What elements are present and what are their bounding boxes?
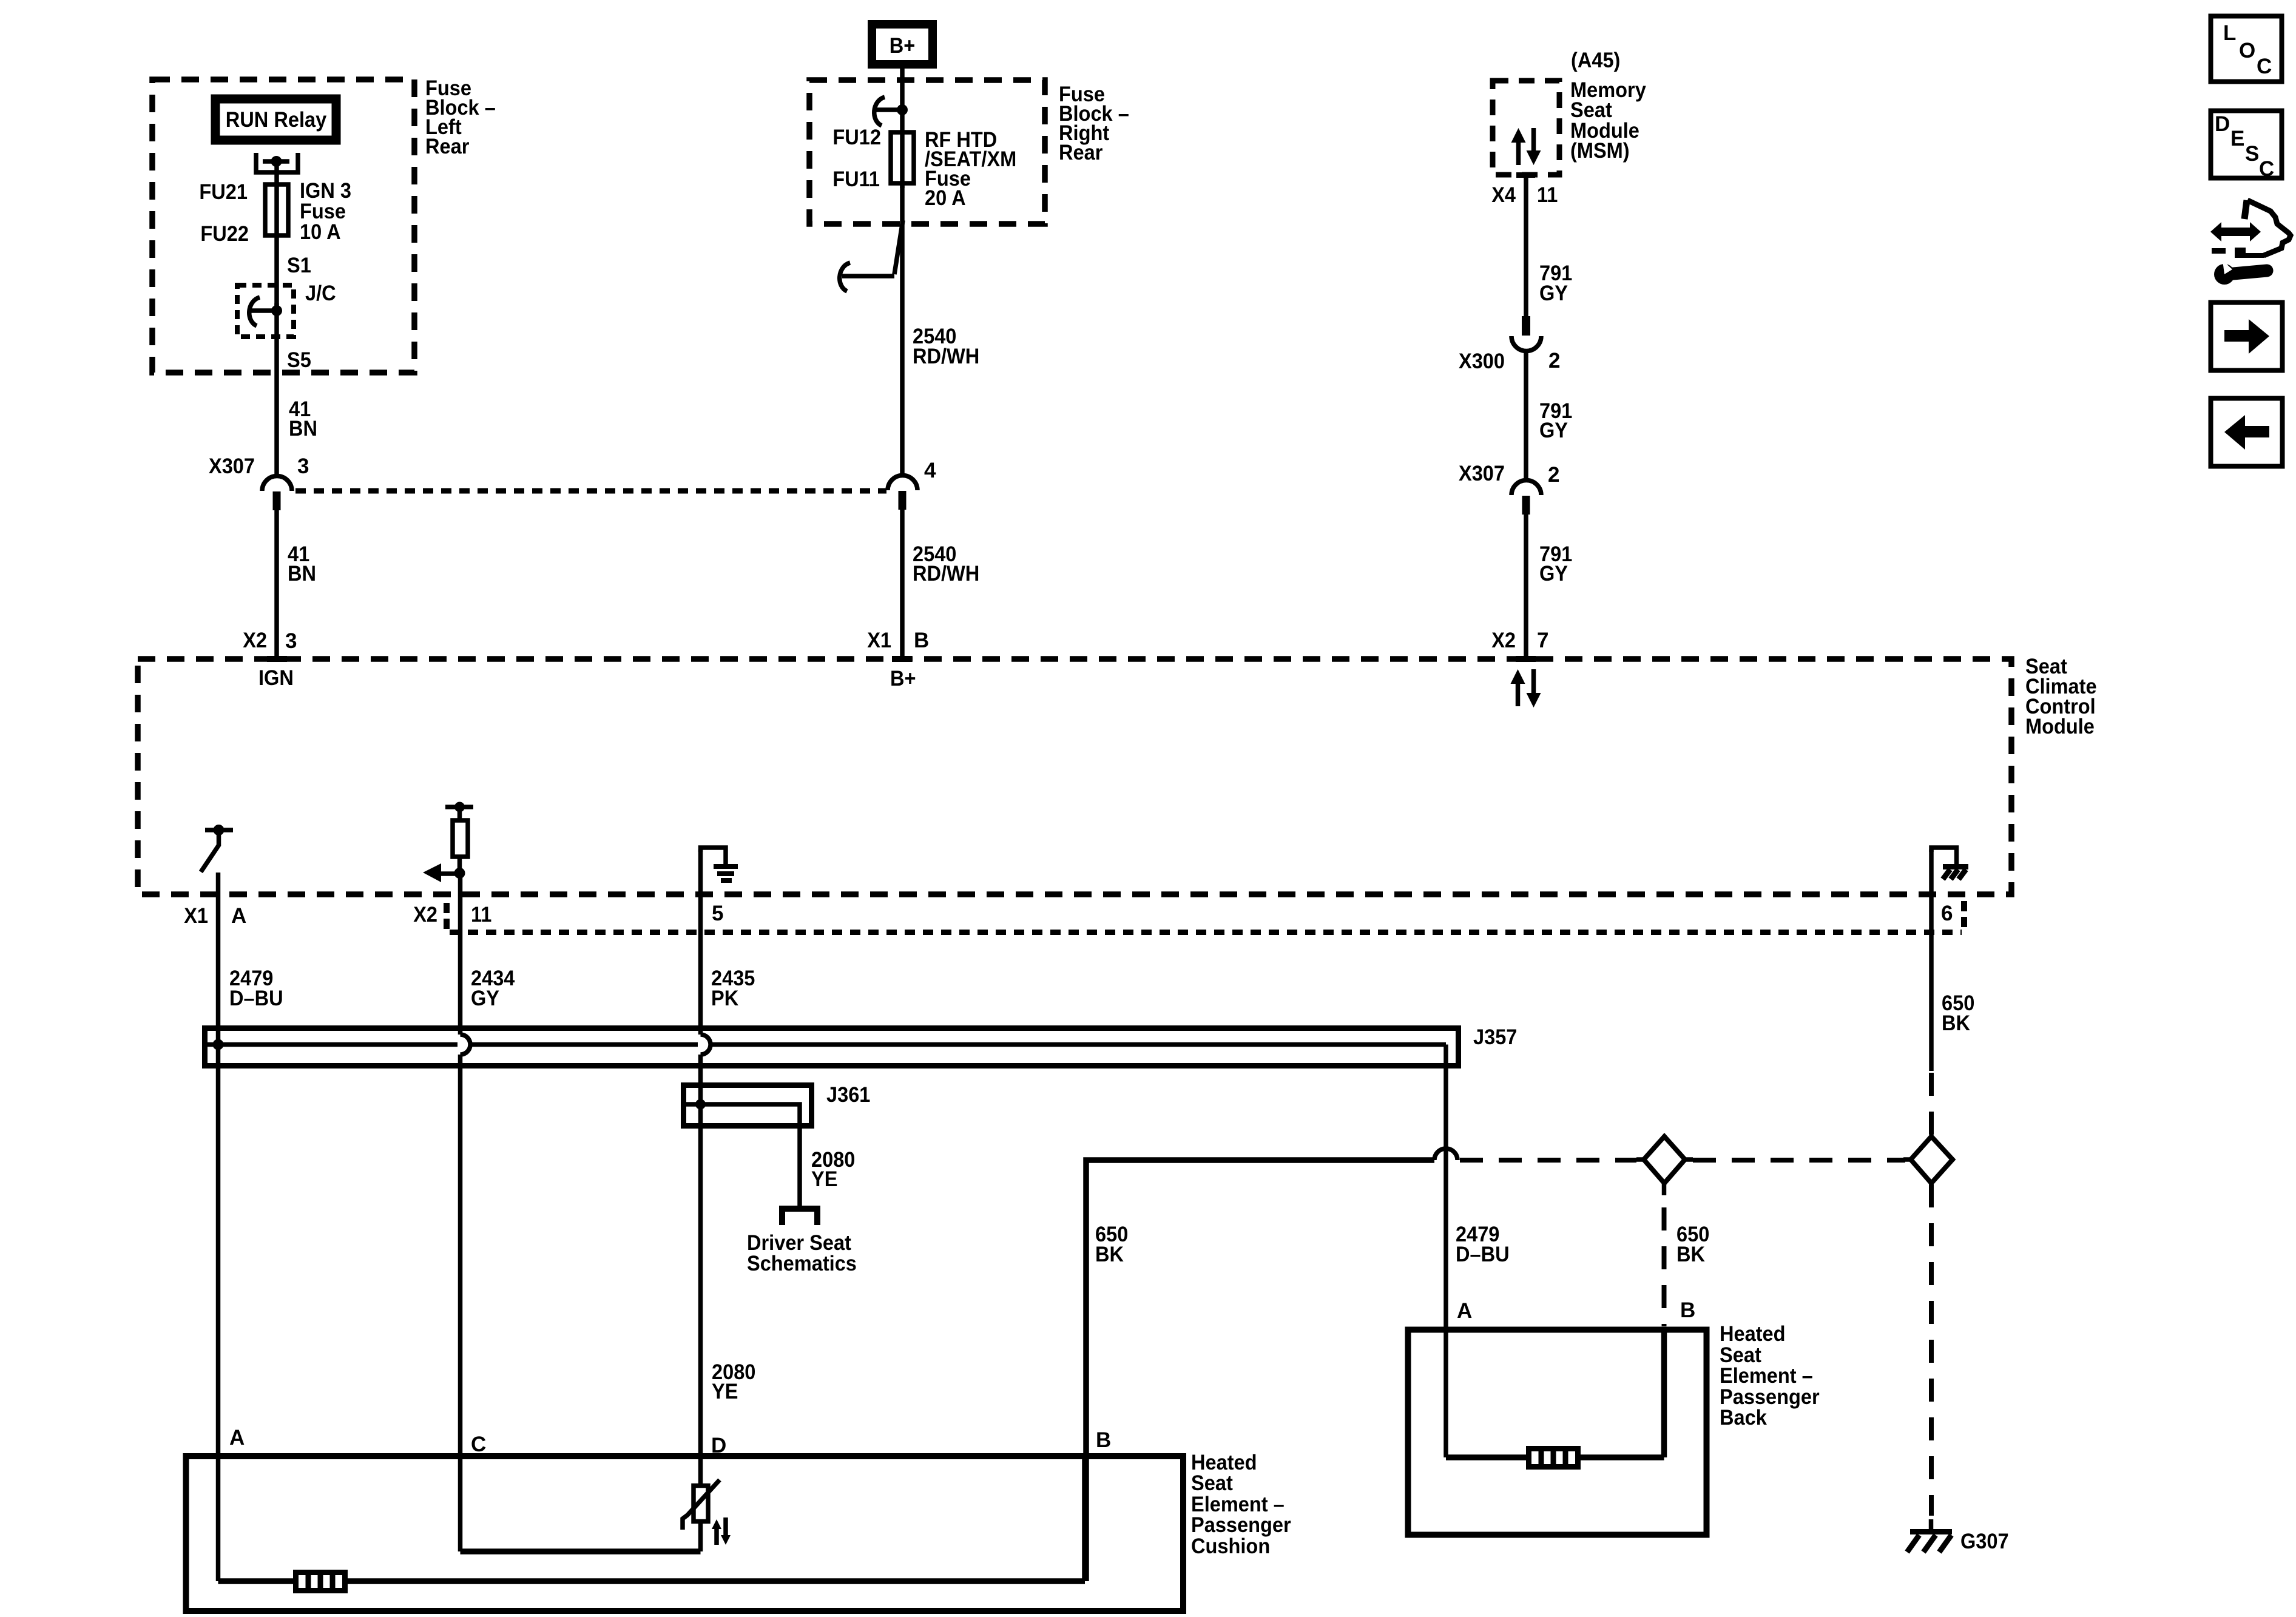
svg-text:J357: J357	[1473, 1025, 1517, 1049]
svg-text:BK: BK	[1095, 1243, 1124, 1266]
svg-text:C: C	[2257, 55, 2272, 78]
svg-text:IGN: IGN	[258, 666, 294, 690]
svg-text:PK: PK	[711, 987, 738, 1010]
svg-text:D: D	[711, 1434, 726, 1457]
wire 2434 GY from pin 11 upper	[458, 876, 463, 1035]
power feed B+ box	[872, 24, 933, 64]
svg-text:A: A	[1457, 1299, 1472, 1323]
svg-text:S1: S1	[287, 254, 311, 277]
svg-text:B+: B+	[890, 34, 916, 58]
wire 650 BK dashed to diamond	[1929, 1073, 1934, 1136]
svg-text:X2: X2	[413, 903, 437, 927]
wire pin B inside cushion	[1082, 1456, 1088, 1581]
svg-text:GY: GY	[1539, 282, 1568, 305]
svg-text:BN: BN	[288, 562, 316, 586]
svg-text:J/C: J/C	[305, 282, 336, 305]
svg-text:BN: BN	[289, 417, 317, 441]
svg-text:D: D	[2215, 112, 2230, 136]
svg-text:FU11: FU11	[832, 167, 880, 191]
up arrow inside MSM	[1511, 128, 1526, 143]
svg-text:L: L	[2223, 21, 2236, 45]
icon double arrow	[2210, 222, 2261, 241]
svg-text:6: 6	[1941, 902, 1953, 925]
svg-text:GY: GY	[471, 987, 499, 1010]
svg-text:RD/WH: RD/WH	[913, 562, 979, 586]
wire 791 GY middle	[1524, 351, 1528, 481]
connector tick X2 at pin 11	[444, 903, 450, 913]
junction dot relay contact	[271, 156, 282, 167]
module box Seat Climate Control Module	[138, 659, 2011, 894]
heater loop bottom run cushion	[218, 1578, 296, 1584]
wire 2080 YE to pin D	[698, 1104, 703, 1484]
inline connector diamond 2	[1911, 1136, 1953, 1183]
pin foot X2/7	[1516, 656, 1536, 662]
connector pin 4 stub	[899, 491, 907, 510]
connector X307 pin 3 stub	[273, 491, 281, 510]
bus J361 inner wire	[686, 1104, 800, 1206]
svg-text:Module: Module	[2025, 715, 2095, 738]
junction J/C dashed box	[237, 285, 294, 337]
svg-text:Heated: Heated	[1720, 1322, 1786, 1346]
svg-text:YE: YE	[712, 1380, 738, 1403]
connector X300 stub	[1522, 316, 1530, 336]
connector pin 4 arc	[888, 476, 917, 491]
splice bus J361	[684, 1085, 812, 1126]
thermistor in cushion	[694, 1486, 708, 1522]
svg-text:2: 2	[1548, 349, 1560, 373]
svg-text:FU21: FU21	[199, 180, 248, 204]
svg-text:E: E	[2230, 127, 2244, 150]
svg-text:Seat: Seat	[1191, 1471, 1233, 1495]
internal ground at pin 5	[701, 848, 726, 864]
splice bus J357	[205, 1028, 1459, 1066]
svg-text:11: 11	[1537, 183, 1558, 207]
connector X300 cup	[1511, 336, 1541, 351]
svg-text:Element –: Element –	[1720, 1364, 1813, 1388]
stub fuse bottom tap	[842, 274, 894, 279]
svg-text:Schematics: Schematics	[747, 1252, 857, 1275]
diagonal tap from fuse	[894, 220, 903, 274]
svg-text:X300: X300	[1459, 349, 1505, 373]
internal ground at pin 6	[1931, 848, 1957, 864]
svg-text:3: 3	[285, 629, 297, 653]
svg-text:(MSM): (MSM)	[1570, 139, 1630, 163]
svg-text:A: A	[229, 1426, 245, 1450]
svg-text:Rear: Rear	[1059, 141, 1103, 164]
svg-text:X307: X307	[1459, 462, 1505, 485]
resistor inside module at pin 11	[453, 820, 468, 857]
connector tick X2 at pin 6	[1961, 901, 1967, 911]
svg-text:X2: X2	[1491, 629, 1516, 652]
ground G307 symbol	[1910, 1529, 1952, 1534]
svg-text:Passenger: Passenger	[1191, 1513, 1291, 1537]
svg-text:FU22: FU22	[200, 222, 249, 246]
sensor loop bottom run cushion	[461, 1548, 701, 1555]
relay RUN Relay box	[215, 99, 336, 140]
connector X307 pin 3 arc	[262, 476, 292, 491]
svg-text:X307: X307	[209, 454, 255, 478]
wire 650 BK dashed diamond2 to G307	[1929, 1184, 1934, 1516]
module box Fuse Block - Right Rear	[809, 80, 1045, 224]
icon wrench	[2214, 264, 2235, 285]
down arrow inside module below pin 7	[1527, 693, 1541, 707]
icon LOC box	[2211, 16, 2282, 82]
connector dashed line X2 bottom	[450, 930, 1962, 935]
bus J357 inner wire	[208, 1042, 458, 1047]
svg-text:GY: GY	[1539, 562, 1568, 586]
wire hop at J357 GY	[461, 1035, 471, 1055]
svg-text:20 A: 20 A	[925, 186, 966, 210]
svg-text:D–BU: D–BU	[229, 987, 283, 1010]
switch inside module at pin A	[205, 828, 233, 832]
svg-text:11: 11	[471, 903, 491, 927]
pin foot X4/11	[1516, 172, 1535, 178]
svg-text:O: O	[2239, 39, 2255, 62]
svg-text:3: 3	[297, 454, 309, 478]
connector X307 pin 2 stub	[1522, 496, 1530, 515]
heating element back	[1529, 1449, 1578, 1467]
up arrow at thermistor	[712, 1519, 721, 1529]
up arrow inside module below pin 7	[1511, 669, 1525, 684]
wire hop at J357 PK	[701, 1035, 711, 1055]
svg-text:7: 7	[1537, 629, 1548, 652]
fuse IGN 3 10A (FU21/FU22)	[265, 184, 288, 235]
wire B+ into fuse block	[900, 64, 905, 188]
relay contact bar	[263, 159, 289, 164]
relay contact terminal U bracket	[256, 153, 298, 172]
component box Heated Seat Element - Passenger Cushion	[186, 1456, 1184, 1611]
icon vehicle outline with wrench	[2244, 200, 2247, 219]
wire 650 BK from pin 6 solid	[1929, 849, 1934, 1071]
component box Heated Seat Element - Passenger Back	[1408, 1330, 1707, 1535]
icon DESC box	[2211, 111, 2282, 178]
wire resistor to junction	[458, 857, 462, 873]
junction dot J357 at D-BU	[213, 1039, 224, 1050]
svg-text:Back: Back	[1720, 1406, 1767, 1430]
wire 2540 to module	[900, 510, 905, 656]
svg-text:YE: YE	[811, 1167, 837, 1191]
svg-text:B: B	[914, 629, 929, 652]
svg-text:5: 5	[712, 902, 723, 925]
svg-text:GY: GY	[1539, 419, 1568, 442]
icon right arrow box	[2211, 303, 2283, 371]
svg-text:A: A	[231, 904, 246, 928]
svg-text:C: C	[471, 1433, 486, 1456]
svg-text:BK: BK	[1942, 1011, 1970, 1035]
svg-text:B: B	[1680, 1298, 1695, 1322]
wire 650 BK dashed diamond1 to diamond2	[1693, 1158, 1905, 1163]
wire 650 BK dashed diamond1 to back element	[1662, 1207, 1667, 1326]
wire stub J/C	[251, 308, 277, 313]
junction dot pin 11	[454, 868, 465, 879]
connector X307 pin 2 arc	[1511, 481, 1541, 496]
down arrow inside MSM	[1527, 150, 1541, 165]
heating element cushion	[296, 1573, 345, 1591]
svg-text:S: S	[2245, 142, 2259, 166]
svg-text:B+: B+	[890, 667, 916, 690]
wire 791 GY lower	[1524, 515, 1528, 656]
wire J357 right turn down	[1443, 1045, 1448, 1458]
wire 2434 GY lower	[458, 1055, 463, 1551]
female terminal fuse top	[874, 97, 885, 126]
svg-text:X1: X1	[184, 904, 208, 928]
wire 650 BK dashed to diamond 1	[1460, 1158, 1636, 1163]
svg-text:4: 4	[924, 459, 936, 482]
junction dot fuse top	[897, 104, 908, 115]
svg-text:RUN Relay: RUN Relay	[226, 108, 327, 132]
wire hop 650 over D-BU	[1434, 1149, 1457, 1160]
fuse RF HTD/SEAT/XM 20A (FU12/FU11)	[891, 132, 914, 183]
off-page connector Driver Seat Schematics	[782, 1209, 817, 1225]
female terminal at J/C	[249, 297, 260, 326]
wire 41 BN to module	[274, 510, 279, 656]
svg-text:2: 2	[1548, 463, 1559, 487]
pin foot X1/B	[892, 656, 912, 662]
svg-text:X1: X1	[867, 629, 891, 652]
junction dot J/C	[271, 305, 282, 316]
svg-text:X4: X4	[1491, 183, 1516, 207]
module box Memory Seat Module	[1493, 81, 1559, 175]
svg-text:C: C	[2259, 157, 2274, 181]
svg-text:D–BU: D–BU	[1456, 1243, 1510, 1266]
connector dashed line X307	[295, 488, 886, 494]
module box Fuse Block - Left Rear	[152, 79, 414, 373]
wire fuse to J/C	[274, 303, 279, 476]
junction dot J361 at PK	[695, 1099, 706, 1110]
wire 2479 D-BU from pin A	[216, 873, 221, 1581]
wire PK to J361	[698, 1055, 703, 1104]
wire 2435 PK from pin 5	[698, 849, 703, 1035]
svg-text:Cushion: Cushion	[1191, 1534, 1270, 1558]
wire relay to fuse FU21	[274, 161, 279, 311]
svg-text:G307: G307	[1960, 1530, 2009, 1553]
svg-text:X2: X2	[243, 629, 267, 652]
svg-text:S5: S5	[287, 348, 311, 372]
stub fuse top terminal	[876, 107, 902, 112]
svg-text:Rear: Rear	[425, 135, 470, 158]
wire 791 GY from MSM	[1524, 175, 1528, 316]
svg-text:FU12: FU12	[832, 126, 881, 149]
supply bar inside module at pin 11	[445, 805, 473, 809]
stub below diamond 1	[1662, 1183, 1667, 1195]
svg-text:RD/WH: RD/WH	[913, 345, 979, 368]
svg-text:BK: BK	[1676, 1243, 1705, 1266]
svg-text:B: B	[1096, 1428, 1111, 1452]
wire pin B inside back box	[1661, 1329, 1667, 1457]
inline connector diamond 1	[1644, 1136, 1685, 1183]
wire thermistor to bottom run	[698, 1521, 703, 1551]
wire fuse down through box	[900, 182, 905, 476]
female terminal fuse bottom tap	[840, 263, 850, 291]
output arrow pointing left	[440, 871, 460, 876]
down arrow at thermistor	[721, 1535, 731, 1545]
svg-text:10 A: 10 A	[300, 220, 341, 244]
ground G307 stub	[1929, 1519, 1934, 1530]
icon left arrow box	[2211, 399, 2283, 467]
heater run back element	[1446, 1454, 1528, 1460]
svg-text:(A45): (A45)	[1571, 49, 1620, 72]
pin foot X2/3	[267, 656, 287, 662]
wire 650 BK corner to cushion pin B	[1086, 1160, 1434, 1581]
svg-text:J361: J361	[826, 1083, 870, 1107]
